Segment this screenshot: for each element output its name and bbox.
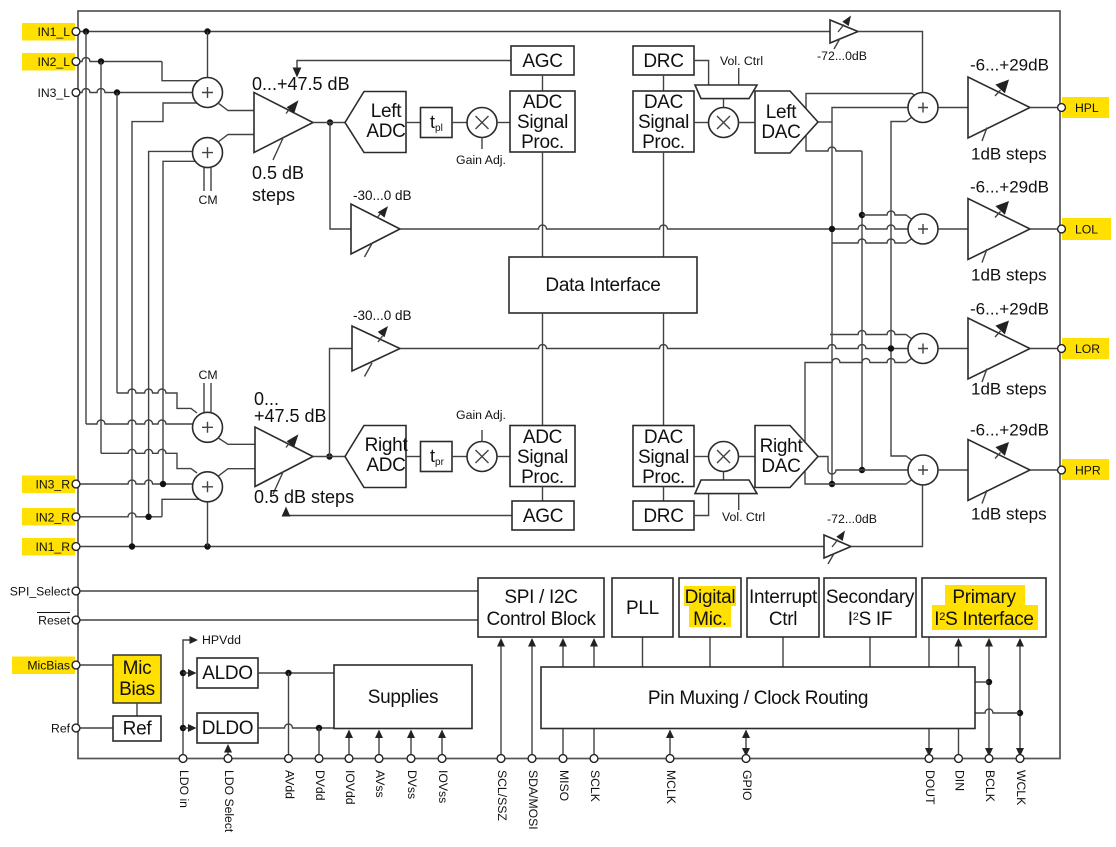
box PLL	[612, 578, 673, 637]
yellow highlight HPL	[1062, 97, 1109, 118]
svg-text:Ctrl: Ctrl	[769, 609, 797, 630]
wire SPI_Select	[79, 590, 478, 592]
pin LDO Select	[224, 755, 232, 763]
arrow AVss into Supplies	[378, 735, 380, 759]
amplifier -30dB right	[352, 326, 400, 371]
pin IN1_L	[72, 28, 80, 36]
svg-text:Bias: Bias	[119, 679, 155, 700]
node IN2_R junction	[145, 514, 151, 520]
svg-text:ADC: ADC	[366, 455, 405, 476]
pin HPL	[1058, 104, 1066, 112]
wire HPR amp to pin	[1030, 469, 1059, 471]
wire right PGA to Right ADC	[313, 456, 345, 458]
wire c2L lower input from IN3_R	[163, 161, 195, 484]
node IN1_L branch	[83, 28, 89, 34]
wire Right ADC to tpr	[406, 456, 421, 458]
wire Left ADC to tpl	[406, 122, 421, 124]
pin BCLK	[985, 755, 993, 763]
wire LOL first input	[862, 211, 912, 220]
svg-text:Vol. Ctrl: Vol. Ctrl	[720, 54, 763, 68]
pin SDA/MOSI	[528, 755, 536, 763]
Left DAC pentagon	[755, 91, 818, 153]
pin LDO in	[179, 755, 187, 763]
pin IN2_L	[72, 58, 80, 66]
summing mixer c2L	[193, 138, 223, 168]
svg-text:-30...0 dB: -30...0 dB	[353, 188, 412, 203]
svg-text:Mic: Mic	[123, 658, 152, 679]
svg-text:Left: Left	[766, 102, 798, 123]
wire multiplier to mux bottom	[723, 472, 725, 481]
svg-text:CM: CM	[198, 193, 217, 207]
box Pin Muxing Clock Routing	[541, 667, 975, 729]
arrow IOVss into Supplies	[441, 735, 443, 759]
vol ctrl stub top	[738, 68, 740, 85]
wire riser x862	[861, 151, 863, 470]
wire riser x832 Left DAC to mixers	[832, 108, 909, 485]
wire multiplier to ADC SP	[497, 122, 510, 124]
svg-text:Primary: Primary	[952, 587, 1016, 608]
amplifier -72dB top	[830, 20, 858, 43]
svg-text:Gain Adj.: Gain Adj.	[456, 408, 506, 422]
svg-text:IOVss: IOVss	[436, 770, 450, 803]
wire -72dB top output to HPL mixer	[858, 32, 923, 94]
node BCLK tap	[986, 679, 992, 685]
svg-text:MCLK: MCLK	[664, 770, 678, 804]
pin HPR	[1058, 466, 1066, 474]
box Primary I2S Interface	[922, 578, 1046, 637]
svg-text:DRC: DRC	[643, 51, 683, 72]
node AVdd	[285, 670, 291, 676]
svg-text:-72...0dB: -72...0dB	[827, 512, 877, 526]
svg-text:GPIO: GPIO	[740, 770, 754, 800]
svg-text:-6...+29dB: -6...+29dB	[970, 56, 1049, 75]
box tpr	[421, 442, 453, 472]
svg-text:LDO in: LDO in	[177, 770, 191, 808]
svg-text:-6...+29dB: -6...+29dB	[970, 178, 1049, 197]
wire IN2_L row	[79, 58, 162, 62]
wire IN1_R up to c2R bottom	[207, 502, 209, 547]
svg-text:-72...0dB: -72...0dB	[817, 49, 867, 63]
wire IN1_L to right mixer c1R	[86, 420, 193, 424]
svg-text:Proc.: Proc.	[521, 132, 564, 153]
svg-text:LOL: LOL	[1075, 223, 1098, 237]
wire Data Interface to right ADC SP	[542, 313, 544, 426]
svg-text:1dB steps: 1dB steps	[971, 145, 1047, 164]
svg-text:Signal: Signal	[638, 112, 689, 133]
arrow DVss into Supplies	[410, 735, 412, 759]
svg-text:DAC: DAC	[761, 122, 800, 143]
box tpl	[421, 108, 453, 138]
amplifier LOL	[968, 199, 1030, 260]
node LDO in to DLDO	[180, 725, 186, 731]
arrow MCLK into pin muxing	[669, 735, 671, 759]
svg-text:Proc.: Proc.	[642, 467, 685, 488]
multiplier X right ADC	[467, 442, 497, 472]
pin LOR	[1058, 345, 1066, 353]
wire DVdd drop	[318, 728, 320, 759]
mux trapezoid right channel	[695, 480, 757, 494]
svg-text:IN1_R: IN1_R	[35, 540, 70, 554]
wire tpr to multiplier	[452, 456, 467, 458]
pin DOUT	[925, 755, 933, 763]
stub pin muxing to BCLK	[975, 681, 989, 683]
wire DRC to vol ctrl mux bottom	[694, 494, 709, 516]
gain adj stub left	[481, 138, 483, 150]
svg-text:0.5 dB: 0.5 dB	[252, 163, 304, 183]
svg-text:Digital: Digital	[685, 587, 736, 608]
AGC control arrow to right PGA	[286, 513, 512, 516]
gain adj stub right	[481, 430, 483, 442]
wire multiplier to Left DAC	[739, 122, 756, 124]
wire right DAC SP to DRC	[663, 487, 665, 502]
Right DAC pentagon	[755, 426, 818, 488]
box Mic Bias	[113, 655, 161, 703]
wire tpl to gain multiplier	[452, 122, 467, 124]
svg-text:IN3_L: IN3_L	[37, 86, 70, 100]
box AGC bottom	[512, 501, 574, 530]
wire LDO in riser	[183, 640, 192, 759]
node riser832 on LOL line	[829, 226, 835, 232]
summing mixer HPL	[908, 93, 938, 123]
summing mixer c2R	[193, 472, 223, 502]
wire Mic Bias to Ref	[136, 703, 138, 716]
wire LOL amp to pin	[1030, 228, 1059, 230]
arrowhead HPVdd	[190, 636, 199, 644]
wire net A HPL top input	[806, 94, 918, 152]
arrow SCLK into control block	[593, 644, 595, 759]
wire c2R to right amp	[218, 469, 255, 477]
node IN1_R branch	[129, 543, 135, 549]
arrow SDA/MOSI into control block	[531, 644, 533, 759]
pin Ref	[72, 724, 80, 732]
svg-text:DAC: DAC	[644, 427, 683, 448]
amplifier LOR	[968, 318, 1030, 379]
wire multiplier to right ADC SP	[497, 456, 510, 458]
pin IN2_R	[72, 513, 80, 521]
Right ADC pentagon	[345, 426, 406, 488]
node WCLK tap	[1017, 710, 1023, 716]
box ALDO	[197, 658, 258, 688]
summing mixer c1L	[193, 78, 223, 108]
pin MISO	[559, 755, 567, 763]
svg-text:Gain Adj.: Gain Adj.	[456, 153, 506, 167]
wire WCLK full	[1019, 644, 1021, 759]
wire LOR amp to pin	[1030, 348, 1059, 350]
wire DAC SP to multiplier	[694, 122, 709, 124]
node right PGA output	[326, 453, 332, 459]
svg-text:Proc.: Proc.	[521, 467, 564, 488]
wire Interrupt to pin muxing	[782, 637, 784, 667]
wire IN2_L down bus	[100, 62, 102, 454]
wire IN2_R jog into c2R	[162, 499, 199, 517]
wire LOR first input	[830, 331, 912, 340]
box ADC Signal Proc left	[510, 91, 575, 152]
wire IN3_R row	[79, 480, 193, 484]
pin WCLK	[1016, 755, 1024, 763]
svg-text:CM: CM	[198, 368, 217, 382]
box Data Interface	[509, 257, 697, 313]
pin LOL	[1058, 225, 1066, 233]
svg-text:WCLK: WCLK	[1014, 770, 1028, 805]
svg-text:Ref: Ref	[123, 719, 153, 740]
wire Secondary I2S to pin muxing	[869, 637, 871, 667]
box Supplies	[334, 665, 472, 729]
box DLDO	[197, 713, 258, 743]
wire DOUT upper	[928, 637, 930, 667]
Left ADC pentagon	[345, 92, 406, 153]
wire c2L center input from IN2_R	[149, 151, 193, 516]
svg-text:Vol. Ctrl: Vol. Ctrl	[722, 510, 765, 524]
svg-text:Data Interface: Data Interface	[545, 275, 660, 296]
svg-text:-6...+29dB: -6...+29dB	[970, 421, 1049, 440]
wire ADC SP to Data Interface	[542, 152, 544, 257]
svg-text:ADC: ADC	[523, 92, 562, 113]
svg-text:ADC: ADC	[366, 121, 405, 142]
box SPI I2C Control Block	[478, 578, 604, 637]
svg-text:AVss: AVss	[373, 770, 387, 798]
svg-text:LDO Select: LDO Select	[222, 770, 236, 833]
wire AVdd drop	[288, 673, 290, 759]
arrow GPIO bidirectional	[745, 735, 747, 752]
wire LOR third to HPR third link	[805, 358, 912, 484]
svg-text:Left: Left	[371, 101, 403, 122]
wire c2L to main amp	[218, 135, 254, 143]
svg-text:Right: Right	[365, 435, 409, 456]
pin GPIO	[742, 755, 750, 763]
wire ALDO output	[258, 672, 334, 674]
svg-text:+47.5 dB: +47.5 dB	[254, 406, 327, 426]
yellow highlight IN2_R	[22, 508, 75, 526]
svg-text:ADC: ADC	[523, 427, 562, 448]
wire DIN lower	[958, 729, 960, 759]
yellow highlight MicBias	[12, 657, 75, 675]
svg-text:DOUT: DOUT	[923, 770, 937, 805]
arrow IOVdd into Supplies	[348, 735, 350, 759]
wire mux to multiplier	[723, 99, 725, 108]
wire DRC to DAC SP	[663, 75, 665, 91]
svg-text:BCLK: BCLK	[983, 770, 997, 802]
node IN1_L to mixer	[204, 28, 210, 34]
wire IN1_L drop to c1L top	[207, 32, 209, 78]
pin DIN	[955, 755, 963, 763]
node riser862 LOL first	[859, 212, 865, 218]
svg-text:AGC: AGC	[523, 506, 563, 527]
svg-text:IN3_R: IN3_R	[35, 478, 70, 492]
pin IOVdd	[345, 755, 353, 763]
summing mixer LOL	[908, 214, 938, 244]
wire HPR center input from Right DAC	[818, 457, 908, 475]
node IN2_L branch	[98, 58, 104, 64]
pin IOVss	[438, 755, 446, 763]
box Ref	[113, 716, 161, 741]
wire -30dB left output to LOL mixer	[400, 225, 909, 229]
wire IN3_L down bus	[116, 93, 118, 394]
svg-text:Control Block: Control Block	[486, 609, 596, 630]
wire IN1_L row	[79, 31, 830, 33]
amplifier -30dB left	[351, 204, 400, 254]
svg-text:1dB steps: 1dB steps	[971, 380, 1047, 399]
svg-text:IN2_R: IN2_R	[35, 510, 70, 524]
wire IN3_L row	[79, 89, 193, 93]
wire LOR mixer to amp	[938, 348, 968, 350]
chip outer border	[78, 11, 1060, 759]
svg-text:SCLK: SCLK	[588, 770, 602, 802]
wire c1R to right amp	[218, 438, 255, 444]
node LDO in to ALDO	[180, 670, 186, 676]
node IN3_R junction	[160, 481, 166, 487]
svg-text:SPI / I2C: SPI / I2C	[504, 587, 577, 608]
pin IN3_R	[72, 480, 80, 488]
wire Data Interface to right DAC SP	[663, 313, 665, 426]
summing mixer LOR	[908, 334, 938, 364]
wire PGA output down to -30dB amp	[330, 123, 351, 230]
amplifier right PGA	[255, 427, 313, 487]
svg-text:1dB steps: 1dB steps	[971, 266, 1047, 285]
stub pin muxing to WCLK	[975, 709, 1020, 713]
svg-text:Signal: Signal	[517, 447, 568, 468]
wire PGA to Left ADC	[313, 122, 345, 124]
svg-text:I2S Interface: I2S Interface	[934, 609, 1033, 630]
svg-text:SDA/MOSI: SDA/MOSI	[526, 770, 540, 830]
svg-text:SPI_Select: SPI_Select	[10, 585, 71, 599]
svg-text:ALDO: ALDO	[202, 663, 253, 684]
yellow highlight LOL	[1062, 218, 1111, 240]
box AGC top	[511, 46, 574, 75]
wire right DAC SP to multiplier	[694, 456, 709, 458]
amplifier HPL	[968, 77, 1030, 138]
svg-text:Ref: Ref	[51, 722, 71, 736]
svg-text:MISO: MISO	[557, 770, 571, 801]
arrow SCL/SSZ into control block	[500, 644, 502, 759]
multiplier X left DAC	[709, 108, 739, 138]
svg-text:-6...+29dB: -6...+29dB	[970, 300, 1049, 319]
gain arrow left PGA	[286, 107, 291, 114]
wire IN3_L to right mixer c1R staircase	[117, 389, 197, 413]
node IN1_R to mixer	[204, 543, 210, 549]
vol ctrl stub bottom	[738, 494, 740, 510]
wire LOL third input	[832, 239, 912, 244]
multiplier X right DAC	[709, 442, 739, 472]
node IN3_L branch	[114, 89, 120, 95]
pin SPI_Select	[72, 587, 80, 595]
wire AGC to ADC SP	[542, 75, 544, 91]
svg-text:Proc.: Proc.	[642, 132, 685, 153]
wire Digital Mic to pin muxing	[709, 637, 711, 667]
svg-text:AGC: AGC	[522, 51, 562, 72]
box ADC Signal Proc right	[510, 426, 575, 487]
arrow into DLDO	[183, 727, 189, 729]
pin DVss	[407, 755, 415, 763]
svg-text:DVdd: DVdd	[313, 770, 327, 801]
svg-text:PLL: PLL	[626, 598, 659, 619]
svg-text:DAC: DAC	[761, 456, 800, 477]
wire LOL mixer to amp	[938, 228, 968, 230]
arrow LDO Select into DLDO	[227, 750, 229, 759]
node DVdd	[316, 725, 322, 731]
wire IN1_R row	[79, 546, 824, 548]
yellow highlight IN1_R	[22, 538, 75, 556]
box DRC bottom	[633, 501, 694, 530]
pin AVdd	[285, 755, 293, 763]
box Digital Mic	[679, 578, 741, 637]
svg-text:LOR: LOR	[1075, 342, 1100, 356]
svg-text:steps: steps	[252, 185, 295, 205]
wire c1L to main amp	[218, 103, 254, 110]
wire BCLK full	[988, 644, 990, 759]
svg-text:Signal: Signal	[638, 447, 689, 468]
CM left double line	[204, 168, 211, 191]
svg-text:IOVdd: IOVdd	[343, 770, 357, 805]
svg-text:SCL/SSZ: SCL/SSZ	[495, 770, 509, 821]
svg-text:Secondary: Secondary	[826, 587, 915, 608]
svg-text:DRC: DRC	[643, 506, 683, 527]
wire riser x891	[891, 117, 912, 461]
svg-text:1dB steps: 1dB steps	[971, 505, 1047, 524]
box DRC top	[633, 46, 694, 75]
arrow DOUT to pin	[928, 729, 930, 749]
svg-text:Supplies: Supplies	[368, 687, 438, 708]
svg-text:IN2_L: IN2_L	[37, 55, 70, 69]
pin SCL/SSZ	[497, 755, 505, 763]
wire -72dB bottom output to HPR mixer	[851, 484, 923, 547]
summing mixer c1R	[193, 412, 223, 442]
node left PGA output	[327, 119, 333, 125]
multiplier X left ADC	[467, 108, 497, 138]
svg-text:DIN: DIN	[953, 770, 967, 791]
arrow into ALDO	[183, 672, 189, 674]
pin AVss	[375, 755, 383, 763]
yellow highlight LOR	[1062, 338, 1109, 359]
yellow highlight IN3_R	[22, 476, 75, 494]
node riser862 HPR center	[859, 467, 865, 473]
wire IN2_L jog into c1L	[162, 62, 198, 81]
wire MicBias	[79, 664, 113, 666]
arrow MISO into control block	[562, 644, 564, 759]
wire DIN upper with arrow up	[958, 644, 960, 667]
svg-text:Reset: Reset	[38, 614, 70, 628]
svg-text:DVss: DVss	[405, 770, 419, 799]
AGC control arrow to left PGA	[297, 61, 511, 72]
amplifier left PGA	[254, 93, 313, 153]
svg-text:HPL: HPL	[1075, 101, 1099, 115]
wire DLDO output	[258, 724, 334, 728]
pin IN3_L	[72, 89, 80, 97]
node riser832 on HPR third line	[829, 481, 835, 487]
wire HPR mixer to amp	[938, 469, 968, 471]
box Secondary I2S IF	[824, 578, 916, 637]
wire DRC to vol ctrl mux	[694, 61, 709, 86]
box Interrupt Ctrl	[747, 578, 819, 637]
svg-text:-30...0 dB: -30...0 dB	[353, 308, 412, 323]
slash left PGA	[273, 137, 284, 160]
CM right double line	[204, 383, 211, 412]
yellow highlight IN1_L	[22, 23, 75, 41]
svg-text:IN1_L: IN1_L	[37, 25, 70, 39]
wire DAC SP to Data Interface	[663, 152, 665, 257]
wire PLL to pin muxing	[642, 637, 644, 667]
wire IN1_L down bus	[85, 32, 87, 425]
summing mixer HPR	[908, 455, 938, 485]
pin SCLK	[590, 755, 598, 763]
pin DVdd	[315, 755, 323, 763]
mux trapezoid left channel	[695, 85, 757, 99]
svg-text:Interrupt: Interrupt	[749, 587, 818, 608]
wire multiplier to Right DAC	[739, 456, 756, 458]
svg-text:DAC: DAC	[644, 92, 683, 113]
wire HPL amp to pin	[1030, 107, 1059, 109]
wire Left DAC tip to riser	[818, 121, 832, 123]
wire Reset	[79, 619, 478, 621]
